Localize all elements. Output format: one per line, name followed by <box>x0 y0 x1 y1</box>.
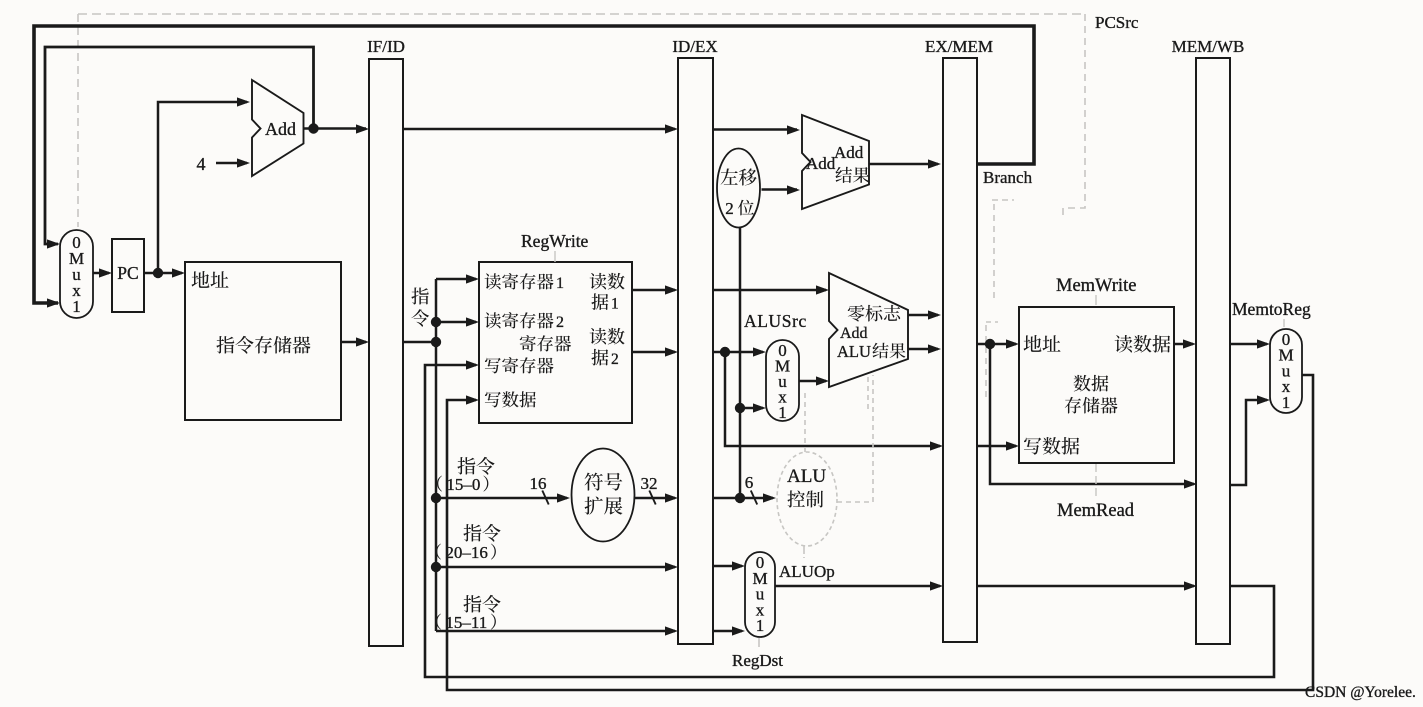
pipeline register ID/EX <box>672 37 717 644</box>
svg-text:ALUSrc: ALUSrc <box>744 311 807 331</box>
svg-text:1: 1 <box>611 296 619 313</box>
svg-text:20–16: 20–16 <box>445 543 488 562</box>
wire: EX/MEM ALU result -> data memory address, junction <box>977 339 1019 349</box>
wire: read data 2 down and across to EX/MEM (store data) <box>725 352 943 451</box>
ALU control unit (faded outline) <box>777 452 837 546</box>
svg-text:PC: PC <box>117 263 138 283</box>
wire: EX/MEM store data -> data memory write data <box>977 441 1019 450</box>
wire: RegDst mux -> EX/MEM (write register number) <box>775 581 943 590</box>
mux RegDst (0/1) <box>745 552 775 637</box>
pipeline register IF/ID <box>367 37 405 646</box>
wire: PC -> instruction memory address, with junction <box>144 268 185 278</box>
wire: instruction out of IF/ID to vertical bus <box>403 337 441 347</box>
data memory box <box>1019 307 1174 463</box>
wire: MEM/WB read data -> MemtoReg mux 0 <box>1230 339 1270 348</box>
wire: ID/EX -> branch adder (PC+4) <box>713 125 800 134</box>
wire: MEM/WB write register number -> register file write register (wrap around) <box>425 360 1274 677</box>
wire: MemtoReg mux output -> register file write data (wrap around) <box>447 375 1313 690</box>
svg-text:15–0: 15–0 <box>446 475 480 494</box>
svg-text:2: 2 <box>725 199 734 218</box>
wire: immediate vertical up to shift-left-2, branch to ALUSrc mux 1 <box>735 228 766 498</box>
svg-text:IF/ID: IF/ID <box>367 37 405 56</box>
PCSrc control line (faded gray, dashed) <box>78 14 1085 227</box>
wire: read data 2 -> ID/EX <box>632 347 678 356</box>
wire: MEM/WB ALU result -> MemtoReg mux 1 <box>1230 395 1270 485</box>
wire: instruction[15-0] -> sign extend <box>431 474 570 505</box>
svg-text:4: 4 <box>197 154 206 174</box>
svg-text:2: 2 <box>556 314 564 331</box>
wire: instruction vertical bus <box>435 279 438 631</box>
register file box <box>479 262 632 423</box>
wire: IF/ID -> ID/EX (PC+4) <box>403 124 678 133</box>
instruction memory box <box>185 262 341 420</box>
wire: branch target loop EX/MEM -> top -> PC mux input 1 <box>34 26 1034 308</box>
label RegWrite with tick <box>521 231 589 262</box>
svg-text:ALU: ALU <box>787 466 826 487</box>
svg-text:MemWrite: MemWrite <box>1056 276 1136 296</box>
svg-text:1: 1 <box>756 616 765 635</box>
wire: read data 2 ID/EX -> ALUSrc mux 0, junction <box>713 347 766 357</box>
wire: instr[15-11] ID/EX -> RegDst mux 1 <box>713 626 745 635</box>
wire: instruction -> read register 1 <box>436 274 479 283</box>
label RegDst with tick <box>732 638 783 670</box>
svg-text:Add: Add <box>265 119 296 139</box>
svg-text:1: 1 <box>778 403 787 422</box>
svg-text:Add: Add <box>806 154 836 173</box>
svg-text:32: 32 <box>641 474 658 493</box>
wire: instr[20-16] ID/EX -> RegDst mux 0 <box>713 561 745 570</box>
label: 指令(15-0) <box>437 457 495 494</box>
svg-text:Add: Add <box>834 143 864 162</box>
wire: EX/MEM write register number -> MEM/WB <box>977 581 1197 590</box>
svg-text:MemtoReg: MemtoReg <box>1232 299 1311 319</box>
wire: Add output -> IF/ID with junction <box>304 123 370 133</box>
pipeline register EX/MEM <box>925 37 993 642</box>
svg-text:MemRead: MemRead <box>1057 501 1135 521</box>
wire: ALU result bypass down to MEM/WB <box>990 344 1197 489</box>
svg-text:ALUOp: ALUOp <box>779 562 835 581</box>
svg-text:1: 1 <box>72 297 81 316</box>
svg-text:PCSrc: PCSrc <box>1095 13 1139 32</box>
faded control wires around ALU control <box>804 375 873 558</box>
svg-text:16: 16 <box>530 474 547 493</box>
wire: instruction[20-16] -> ID/EX <box>431 562 678 572</box>
wire: read data 1 -> ID/EX <box>632 285 678 294</box>
shift left 2 unit <box>717 149 760 228</box>
wire: instruction[15-11] -> ID/EX <box>436 626 678 635</box>
label MemtoReg with tick <box>1232 299 1311 329</box>
sign extend unit <box>572 449 635 542</box>
label MemWrite with tick <box>1056 276 1136 306</box>
constant 4 and wire into Add <box>197 154 251 174</box>
wire: read data 1 ID/EX -> ALU <box>713 285 829 294</box>
wire: mux -> PC <box>93 268 112 277</box>
svg-text:RegWrite: RegWrite <box>521 231 589 251</box>
faded branch-AND-gate control scribbles <box>986 200 1014 402</box>
label MemRead with tick <box>1057 464 1135 521</box>
pipeline register MEM/WB <box>1172 37 1245 644</box>
wire: branch adder -> EX/MEM <box>869 159 941 168</box>
register PC <box>112 239 144 312</box>
mux: PC source (0/1) <box>60 230 93 318</box>
wire: data memory read data -> MEM/WB <box>1174 339 1196 348</box>
adder Add (PC+4) <box>252 80 304 176</box>
svg-text:RegDst: RegDst <box>732 651 783 670</box>
svg-text:2: 2 <box>611 351 619 368</box>
adder Add (branch target) <box>802 115 869 209</box>
wire: ALU result -> EX/MEM <box>908 344 941 353</box>
wire: instruction memory -> IF/ID <box>341 337 369 346</box>
mux MemtoReg (0/1) <box>1270 329 1302 413</box>
wire: ALU zero flag -> EX/MEM <box>908 310 941 319</box>
svg-text:MEM/WB: MEM/WB <box>1172 37 1245 56</box>
svg-text:Add: Add <box>840 325 868 342</box>
wire: ALUSrc mux -> ALU <box>799 376 829 385</box>
wire: PC+4 feedback Add output -> PC mux input 0 <box>45 47 314 249</box>
svg-text:ALU: ALU <box>837 342 871 361</box>
wire: PC value up to Add input <box>158 97 250 273</box>
svg-text:CSDN @Yorelee.: CSDN @Yorelee. <box>1305 684 1416 701</box>
ALU (main) <box>829 273 908 387</box>
mux ALUSrc (0/1) <box>766 340 799 422</box>
wire: shift left 2 -> branch adder <box>762 185 801 194</box>
svg-text:EX/MEM: EX/MEM <box>925 37 993 56</box>
wire: sign extend -> ID/EX (32) <box>635 474 679 505</box>
wire: sign-extended immediate ID/EX -> ALU control, junction <box>713 473 776 505</box>
label: 指令(20-16) <box>436 524 501 562</box>
svg-text:1: 1 <box>556 275 564 292</box>
svg-text:1: 1 <box>1282 393 1291 412</box>
svg-text:15–11: 15–11 <box>445 613 487 632</box>
svg-text:6: 6 <box>745 473 754 492</box>
svg-text:Branch: Branch <box>983 168 1033 187</box>
wire: instruction -> read register 2 <box>431 317 479 327</box>
label: 指令(15-11) <box>436 595 501 632</box>
svg-text:ID/EX: ID/EX <box>672 37 717 56</box>
label: instruction (vertical) <box>411 287 429 326</box>
